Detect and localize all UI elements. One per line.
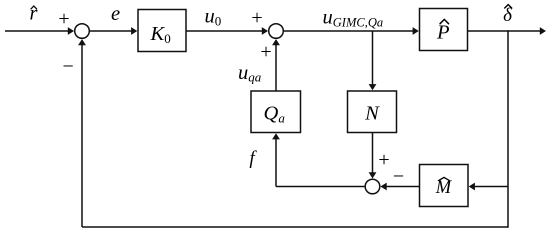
svg-text:+: + <box>260 41 271 63</box>
svg-text:−: − <box>63 55 74 77</box>
svg-text:M: M <box>435 178 453 198</box>
svg-text:+: + <box>378 149 389 171</box>
svg-text:+: + <box>251 7 262 29</box>
svg-text:−: − <box>393 166 404 188</box>
svg-text:e: e <box>111 3 120 25</box>
svg-text:P: P <box>436 22 450 44</box>
svg-text:N: N <box>364 103 380 125</box>
svg-text:+: + <box>58 8 69 30</box>
